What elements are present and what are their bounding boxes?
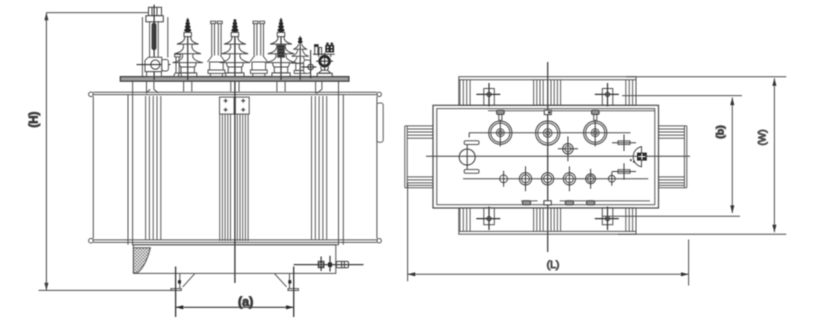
bottom band hatch left — [460, 208, 470, 232]
lifting screw rod — [149, 22, 151, 61]
small circle S6 — [608, 175, 615, 182]
turret below bushing B3 — [277, 81, 285, 92]
right skid extension line (a) — [293, 267, 295, 318]
bottom band bolt left bracket — [484, 208, 495, 225]
core clamp plate right — [235, 97, 249, 114]
dimension W — [773, 78, 775, 232]
tank left wall — [127, 95, 129, 245]
vertical center line — [547, 62, 549, 252]
HV bushing circle 3 — [584, 121, 607, 144]
dimension H top arrow — [44, 13, 48, 21]
svg-text:(W): (W) — [758, 129, 769, 145]
tank bottom line — [132, 244, 339, 246]
bottom pad 4 — [587, 201, 595, 205]
left pad lower — [464, 170, 479, 174]
lid support left — [147, 81, 159, 94]
lifting bracket side plate — [162, 60, 169, 72]
drain pipe — [294, 264, 364, 266]
small circle S2 — [519, 173, 531, 185]
lifting screw jack: head — [146, 7, 163, 21]
arcing horn tubes between B1 and B2 — [207, 21, 225, 76]
gas relay bolt crosshair — [301, 66, 316, 68]
bottom band hatch center — [534, 208, 561, 232]
right radiator bank — [659, 126, 687, 188]
tank outline inner — [437, 109, 655, 205]
clamp plate bolt marks — [224, 99, 246, 112]
right side bracket — [377, 103, 383, 142]
left pad upper — [464, 141, 479, 145]
top band bolt right bracket — [602, 89, 613, 106]
left fin outer edge — [92, 97, 94, 239]
dimension L — [408, 273, 689, 275]
thermometer well — [633, 147, 641, 167]
dimension a left arrow — [176, 305, 184, 309]
dimension H bottom extension line — [39, 289, 176, 291]
bottom pad 2 (center, white) — [544, 201, 551, 205]
drain bolt 1 — [318, 261, 324, 267]
lifting screw frame right edge — [167, 17, 169, 57]
top band hatch right — [626, 80, 633, 106]
lifting screw slot — [152, 23, 156, 50]
bottom band bolt right bracket — [602, 208, 613, 225]
lifting screw axis — [153, 5, 155, 80]
lifting bracket eye axis — [137, 64, 171, 66]
inner top line — [488, 110, 655, 112]
small circle S5 — [586, 174, 596, 184]
lid support right — [316, 81, 322, 94]
bushing B3 (HV pagoda insulator with dark gauge) — [280, 18, 282, 80]
drain bolt 2 — [328, 262, 332, 267]
center axis line — [234, 20, 236, 283]
base gusset with stipple — [133, 248, 150, 273]
svg-text:(L): (L) — [547, 259, 560, 271]
right fin top corner ring — [377, 92, 381, 96]
gas relay plate — [304, 60, 311, 73]
svg-text:(H): (H) — [29, 111, 41, 127]
oil valve assembly — [313, 43, 335, 77]
dimension a right arrow — [286, 305, 294, 309]
top band hatch center — [534, 80, 561, 106]
LV bushing circle left — [459, 149, 475, 165]
small post left of bushing B1 — [174, 54, 182, 76]
dimension a line — [176, 306, 294, 308]
bushing row horizontal line — [469, 132, 631, 134]
lifting screw frame left edge — [141, 17, 143, 78]
right pad cross upper — [618, 141, 630, 145]
top band hatch left — [460, 80, 470, 106]
right skid — [275, 273, 299, 290]
svg-text:(a): (a) — [238, 295, 253, 309]
lifting bracket eye — [151, 60, 160, 69]
lifting bracket pedestal — [147, 72, 162, 77]
bottom pad 1 — [522, 201, 530, 205]
center core column lines — [220, 114, 248, 241]
inner bottom line left segment — [521, 200, 538, 202]
HV bushing circle 1 — [489, 121, 512, 144]
top fin band — [459, 77, 636, 106]
left radiator bank — [405, 126, 433, 188]
lower fitting row line — [463, 178, 648, 180]
left fin bottom corner ring — [89, 238, 94, 243]
top band bolt left bracket — [484, 89, 495, 106]
base frame — [133, 245, 335, 274]
bottom band hatch right — [626, 208, 633, 232]
small LV bushing — [291, 36, 310, 80]
turret below bushing B1 — [184, 81, 192, 92]
bushing B1 (HV pagoda insulator) — [187, 18, 189, 80]
lifting bracket plate — [145, 57, 162, 71]
bottom fin band — [459, 208, 636, 234]
tank right wall — [342, 95, 344, 245]
gas relay bolt circle — [308, 64, 314, 70]
left skid extension line (a) — [175, 267, 177, 318]
fin top rail — [93, 91, 377, 93]
dimension H vertical line — [45, 13, 47, 291]
leader tick left of circle 1 — [468, 133, 470, 138]
bushing B3 dark gauge bands — [278, 45, 285, 57]
left skid — [171, 273, 195, 290]
right fin bottom corner ring — [377, 239, 381, 243]
right fin pack verticals — [312, 96, 327, 240]
small circle S1 — [500, 175, 508, 183]
small circle S4 — [563, 173, 575, 185]
bottom pad 3 — [565, 201, 573, 205]
dimension H bottom arrow — [44, 283, 48, 291]
right pad cross lower — [618, 170, 630, 174]
dimension H top extension line — [46, 12, 159, 14]
left fin pack verticals — [146, 96, 161, 240]
left fin top corner ring — [89, 92, 94, 97]
dimension b — [731, 98, 733, 214]
right fin outer edge — [376, 97, 378, 239]
horizontal center line — [426, 155, 690, 157]
turret below bushing B2 — [231, 81, 239, 92]
drain valve body — [336, 261, 348, 267]
core clamp plate left — [220, 97, 235, 114]
tank outline outer — [433, 105, 659, 208]
fin bottom rail — [93, 239, 377, 241]
medium bolt circle — [563, 144, 573, 154]
top pad 1 — [497, 110, 505, 114]
top pad center — [544, 110, 551, 114]
HV bushing circle 2 — [536, 121, 560, 145]
tank lid plate — [120, 77, 349, 82]
arcing horn tubes between B2 and B3 — [250, 21, 268, 76]
svg-text:(b): (b) — [715, 125, 727, 138]
top pad 3 — [592, 110, 600, 114]
small circle S3 — [542, 173, 554, 185]
inner bottom line right segment — [560, 200, 650, 202]
bushing B2 (HV pagoda insulator, on center axis) — [220, 19, 250, 77]
